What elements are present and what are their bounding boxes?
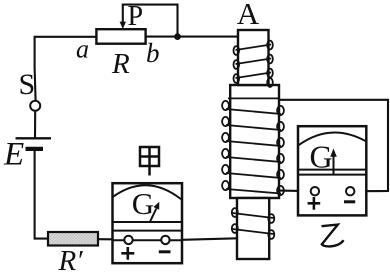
svg-text:R′: R′ — [58, 245, 84, 274]
svg-text:A: A — [237, 0, 260, 31]
svg-text:S: S — [19, 68, 36, 101]
svg-text:G: G — [132, 186, 154, 221]
svg-text:a: a — [76, 35, 89, 64]
svg-text:R: R — [111, 48, 130, 80]
svg-text:P: P — [128, 1, 144, 32]
svg-text:E: E — [3, 137, 24, 173]
svg-text:G: G — [310, 138, 333, 174]
svg-text:b: b — [146, 38, 160, 68]
